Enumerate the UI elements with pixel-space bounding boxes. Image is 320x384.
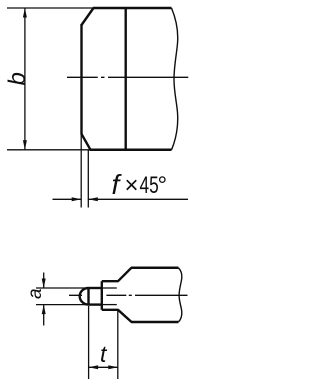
wide shaft top edge (lower view) <box>131 266 178 269</box>
dimension line f left segment <box>53 198 82 200</box>
shaft top edge (upper view) <box>93 7 172 10</box>
break line (lower view) <box>178 268 181 322</box>
dimension line f right segment <box>88 198 188 200</box>
pin top edge <box>89 287 102 289</box>
extension line top (dimension b, upper view) <box>7 7 94 9</box>
arrowhead b top <box>23 8 27 18</box>
arrowhead b bottom <box>23 140 27 150</box>
svg-text:a: a <box>25 288 46 299</box>
shaft bottom edge (upper view) <box>90 149 172 152</box>
thread core line top (thin) <box>102 287 117 289</box>
pin bottom edge <box>89 303 102 305</box>
svg-text:°: ° <box>158 172 168 199</box>
shoulder vertical line (thread start) <box>101 281 103 310</box>
svg-text:b: b <box>4 72 31 85</box>
runout chamfer bottom (lower view) <box>118 310 132 322</box>
arrowhead t left <box>89 365 99 369</box>
a extension line bottom (lower view) <box>36 304 89 306</box>
thread core line bottom (thin) <box>102 304 117 306</box>
dimension line b <box>24 8 26 150</box>
extension line f right <box>87 151 89 208</box>
extension line bottom (dimension b, upper view) <box>7 149 91 151</box>
pin rounded cap arc (lower view) <box>80 288 89 305</box>
chamfer bottom (upper view) <box>82 134 91 150</box>
svg-text:f: f <box>112 169 123 200</box>
arrowhead a bottom (pointing up) <box>42 305 46 315</box>
runout chamfer top (lower view) <box>118 268 132 282</box>
pin cap tangent vertical line <box>87 288 89 305</box>
arrowhead f left (pointing right) <box>72 197 82 201</box>
chamfer top (upper view) <box>82 8 94 25</box>
svg-text:×: × <box>125 172 139 199</box>
wide shaft bottom edge (lower view) <box>131 321 178 324</box>
centerline (lower view) <box>69 294 188 296</box>
arrowhead f right (pointing left) <box>88 197 98 201</box>
t extension line left <box>88 306 90 379</box>
break line (upper view) <box>172 8 178 150</box>
thread major diameter bottom edge <box>102 309 119 311</box>
t extension line right <box>117 311 119 379</box>
svg-text:t: t <box>100 341 108 367</box>
svg-text:45: 45 <box>140 172 159 198</box>
arrowhead a top (pointing down) <box>42 279 46 289</box>
shaft left edge (upper view) <box>80 24 82 135</box>
chamfer edge vertical line (upper view) <box>124 8 126 150</box>
dimension line t <box>89 366 118 368</box>
arrowhead t right <box>108 365 118 369</box>
a extension line top (lower view) <box>36 287 89 289</box>
extension line f left <box>80 135 82 208</box>
centerline (upper view) <box>67 76 188 78</box>
dimension line a (two outside segments) <box>43 273 45 326</box>
thread major diameter top edge <box>102 280 119 282</box>
